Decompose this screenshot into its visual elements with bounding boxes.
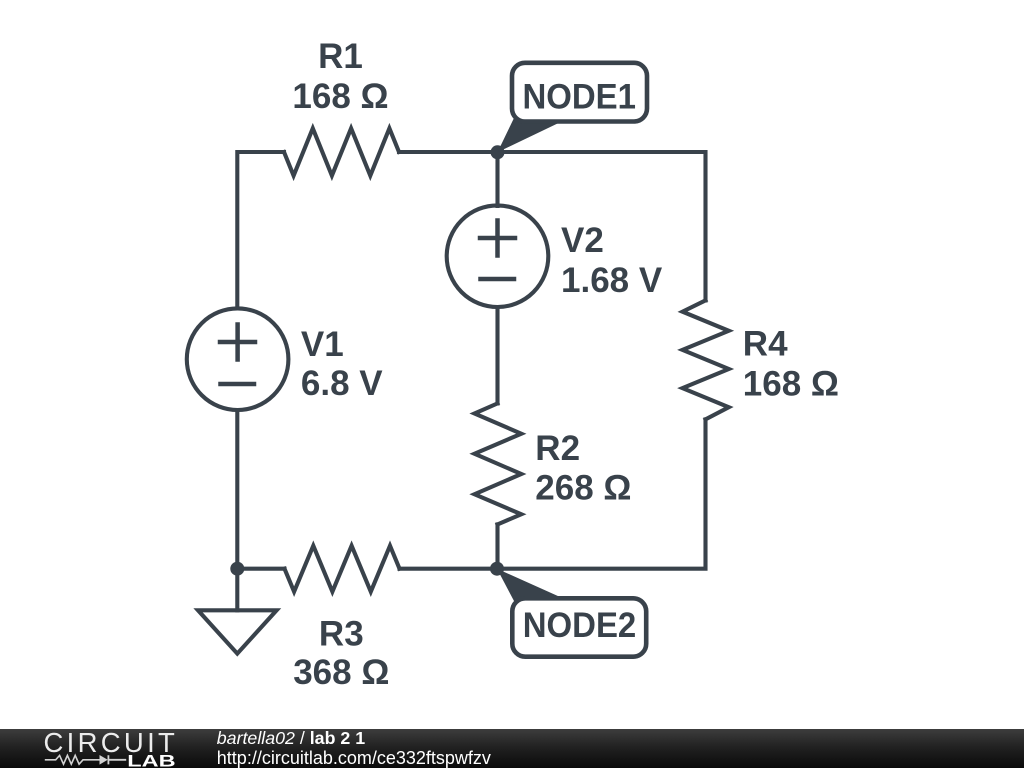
voltage source V2 circle: [447, 205, 549, 307]
svg-text:V2: V2: [561, 221, 604, 260]
logo diode: [100, 755, 108, 765]
node A junction dot: [491, 145, 505, 159]
wire R4 to bottom-right corner to node B: [498, 419, 706, 568]
V2 plus sign: [480, 221, 515, 256]
V1 minus sign: [221, 382, 255, 387]
svg-text:V1: V1: [301, 325, 344, 364]
wire R2 to node B: [495, 524, 499, 568]
svg-text:368 Ω: 368 Ω: [293, 653, 389, 692]
svg-text:R4: R4: [743, 325, 788, 364]
resistor R1: [284, 128, 399, 175]
footer bar: [0, 729, 1024, 768]
V2 minus sign: [481, 277, 515, 282]
svg-text:bartella02 / lab 2 1: bartella02 / lab 2 1: [217, 728, 365, 748]
wire R3 to junction C: [237, 567, 284, 571]
svg-text:1.68 V: 1.68 V: [561, 261, 663, 300]
CircuitLab logo resistor glyph: [45, 755, 100, 764]
resistor R3: [285, 546, 400, 592]
svg-text:R3: R3: [319, 614, 364, 653]
NODE1 callout box: [512, 63, 647, 122]
resistor R4: [683, 300, 729, 419]
wire left rail top corner: [237, 152, 284, 308]
svg-text:168 Ω: 168 Ω: [292, 77, 388, 116]
ground symbol: [198, 610, 277, 653]
wire R1 to node A: [399, 150, 498, 154]
svg-text:168 Ω: 168 Ω: [743, 364, 839, 403]
V1 plus sign: [220, 325, 255, 360]
svg-text:R2: R2: [535, 429, 580, 468]
wire V1 bottom to junction C to ground: [235, 410, 239, 610]
junction C dot: [230, 562, 244, 576]
node B junction dot: [490, 562, 504, 576]
NODE1 callout tail: [498, 118, 570, 152]
wire node B to R3 right lead: [400, 567, 498, 571]
svg-text:6.8 V: 6.8 V: [301, 364, 383, 403]
svg-text:LAB: LAB: [127, 752, 175, 768]
wire V2 bottom to R2 top: [495, 307, 499, 403]
svg-text:http://circuitlab.com/ce332fts: http://circuitlab.com/ce332ftspwfzv: [217, 748, 491, 768]
NODE2 callout tail: [497, 569, 569, 601]
svg-text:NODE2: NODE2: [523, 606, 637, 645]
svg-text:R1: R1: [318, 37, 363, 76]
NODE2 callout box: [512, 598, 646, 656]
wire node A down to V2 top: [495, 152, 499, 206]
svg-text:NODE1: NODE1: [522, 78, 636, 117]
resistor R2: [475, 403, 522, 524]
voltage source V1 circle: [187, 308, 289, 410]
wire node A to top-right corner and down: [498, 152, 706, 300]
svg-text:268 Ω: 268 Ω: [535, 468, 631, 507]
